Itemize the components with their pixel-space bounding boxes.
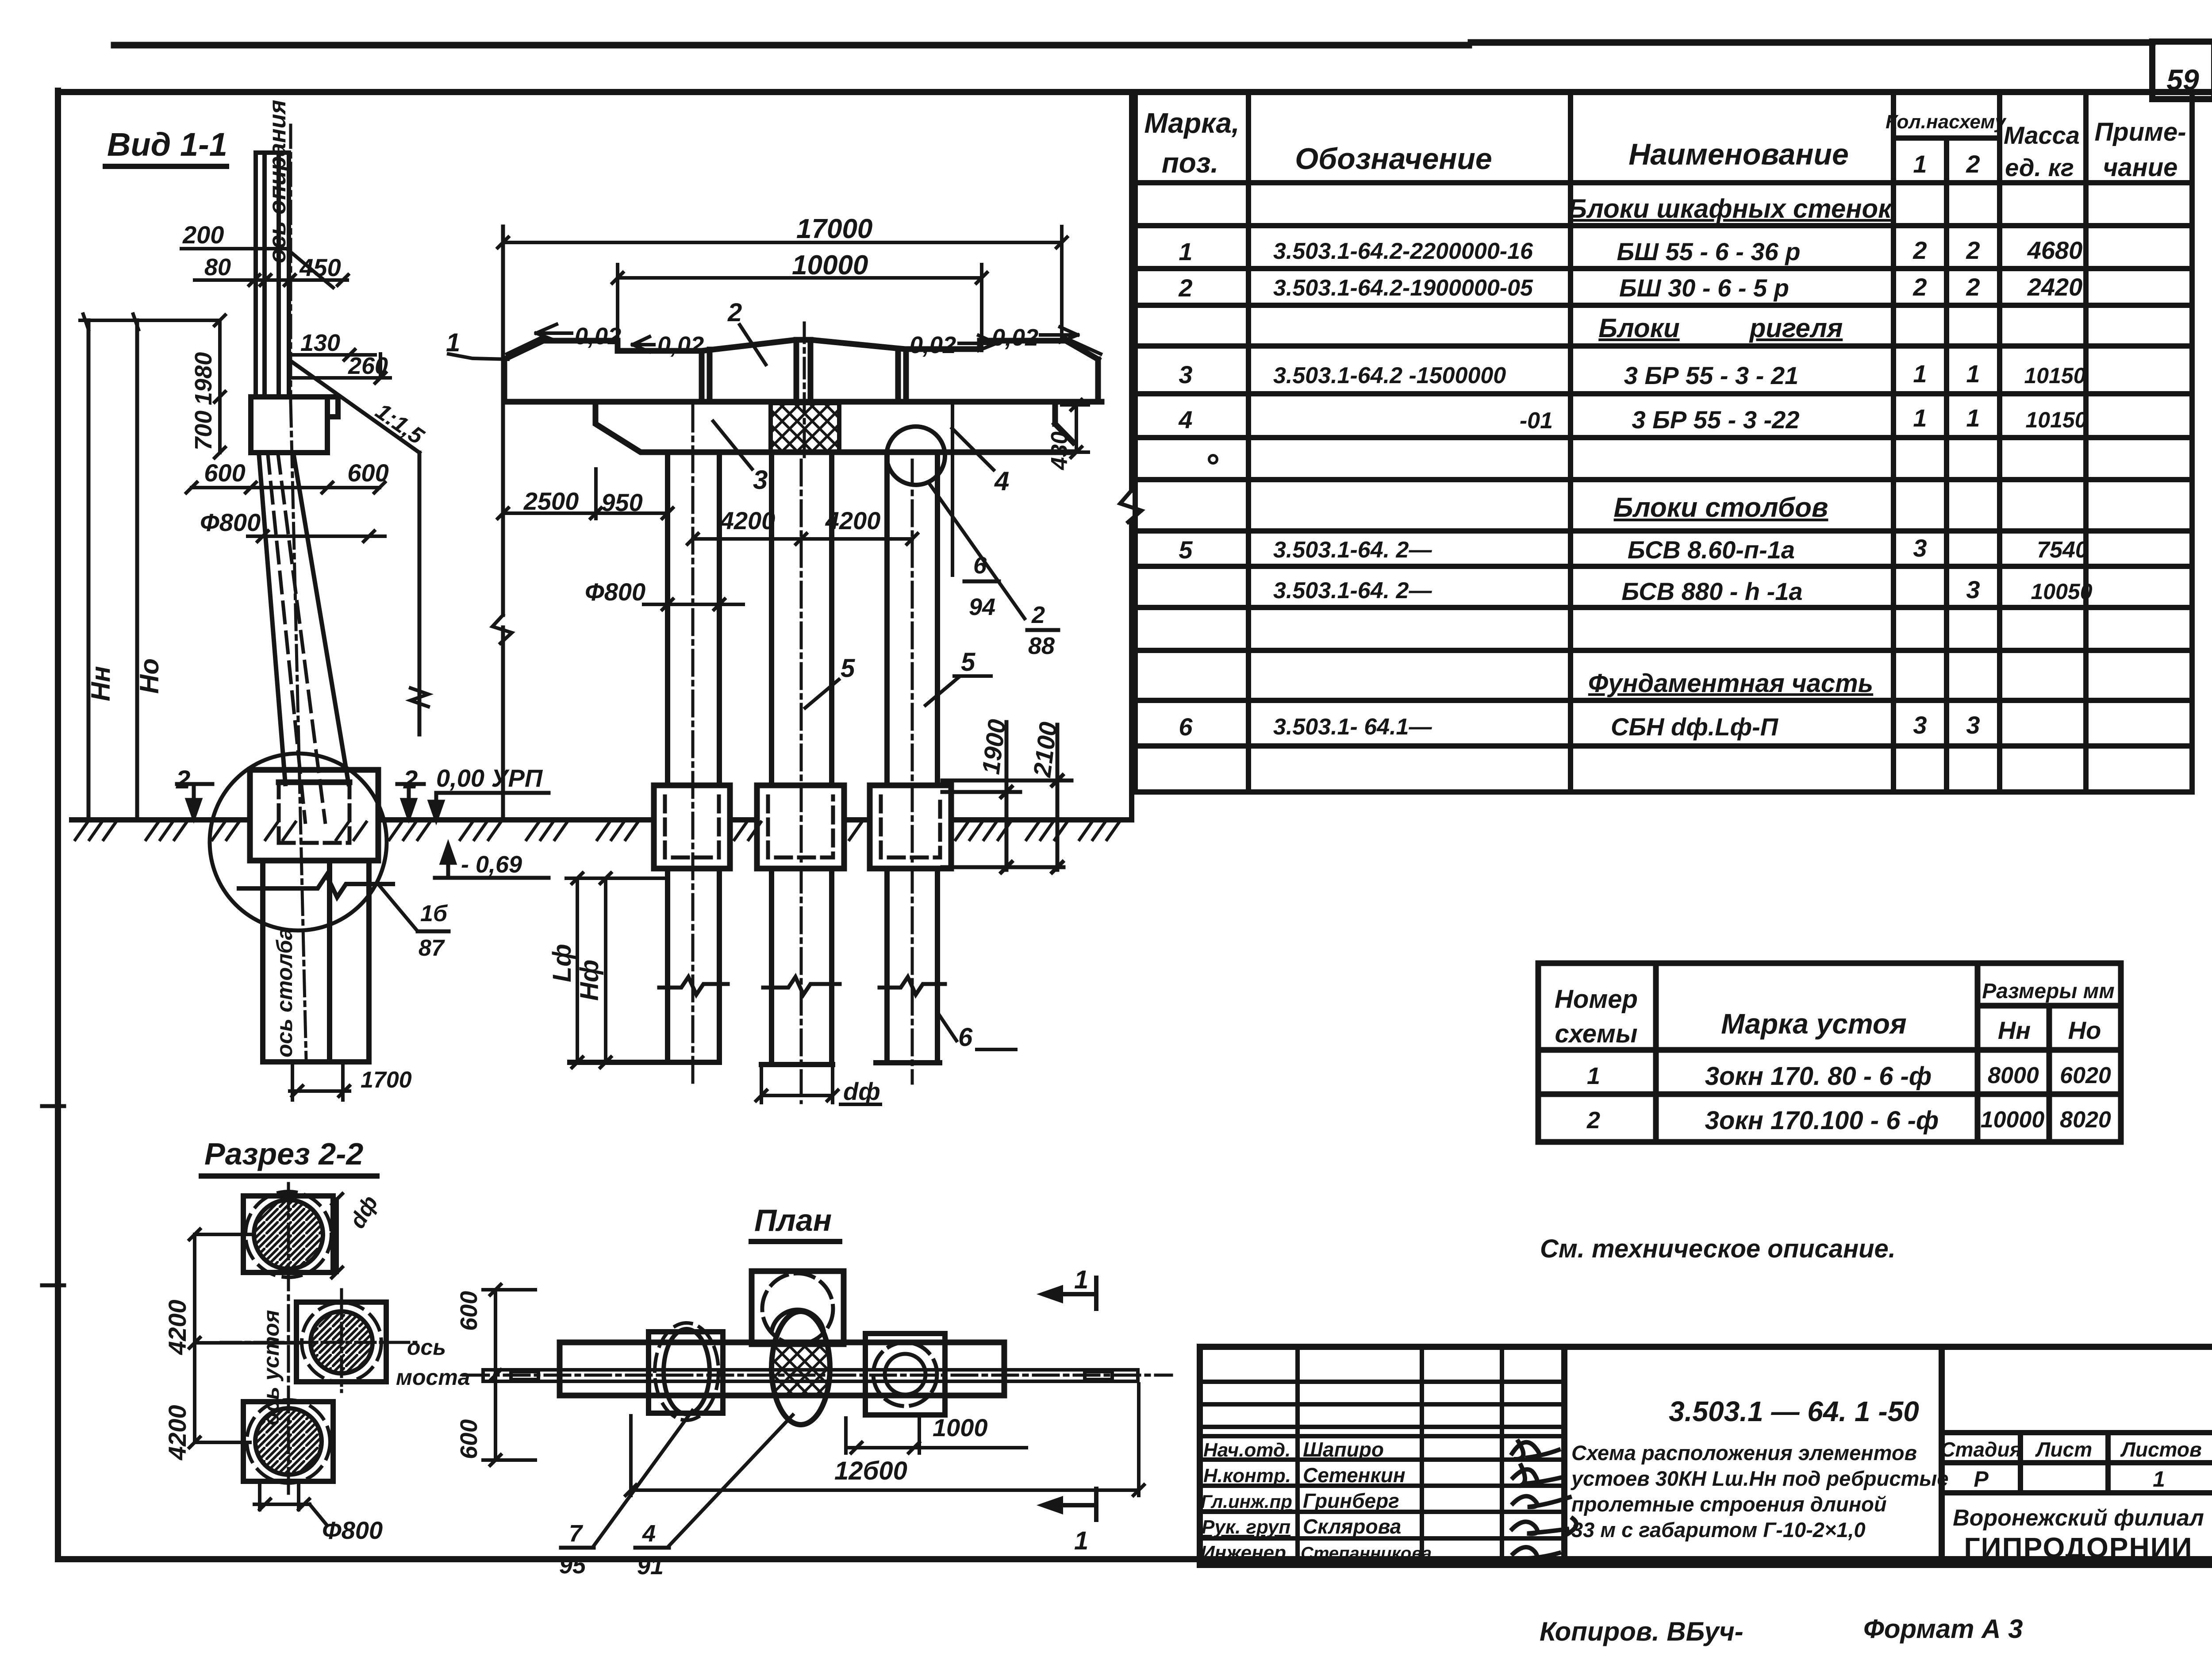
slope labels 0.02 — [575, 323, 1038, 358]
svg-text:3: 3 — [1913, 534, 1927, 562]
svg-text:3.503.1 — 64. 1 -50: 3.503.1 — 64. 1 -50 — [1669, 1395, 1919, 1427]
signatures scribbles — [1512, 1441, 1576, 1559]
title block description — [1571, 1441, 1949, 1541]
svg-text:2: 2 — [1912, 273, 1927, 301]
svg-text:91: 91 — [637, 1553, 664, 1580]
svg-text:1: 1 — [2153, 1467, 2165, 1491]
svg-text:0,02: 0,02 — [575, 323, 621, 350]
svg-text:Нф: Нф — [575, 960, 604, 1001]
row 6 — [1179, 711, 1980, 741]
specification table header texts — [1144, 107, 2186, 182]
battered column lines below cap — [259, 453, 349, 784]
svg-text:2: 2 — [1586, 1107, 1600, 1134]
svg-text:3: 3 — [1913, 711, 1927, 739]
svg-text:Нн: Нн — [1998, 1016, 2031, 1044]
svg-text:1: 1 — [1913, 360, 1927, 388]
svg-text:Ф800: Ф800 — [322, 1516, 383, 1544]
abutment wall verticals — [256, 153, 289, 397]
svg-text:8000: 8000 — [1988, 1063, 2039, 1088]
svg-text:БШ 30 - 6 - 5 р: БШ 30 - 6 - 5 р — [1619, 274, 1789, 302]
svg-text:СБН dф.Lф-П: СБН dф.Lф-П — [1611, 713, 1779, 741]
svg-text:6020: 6020 — [2060, 1063, 2111, 1088]
footing blocks — [654, 785, 951, 869]
svg-text:БСВ 880 - h -1а: БСВ 880 - h -1а — [1621, 577, 1802, 605]
svg-text:17000: 17000 — [796, 214, 872, 244]
svg-text:Схема расположения элементов: Схема расположения элементов — [1571, 1441, 1917, 1464]
detail circle on cap — [887, 427, 945, 485]
svg-text:Нач.отд.: Нач.отд. — [1203, 1439, 1290, 1461]
svg-text:БШ 55 - 6 - 36 р: БШ 55 - 6 - 36 р — [1617, 238, 1800, 265]
svg-text:Приме-: Приме- — [2094, 118, 2186, 146]
svg-text:1980: 1980 — [190, 352, 217, 405]
svg-text:1: 1 — [1587, 1063, 1600, 1089]
row 1 — [1179, 236, 2082, 265]
svg-text:2: 2 — [1966, 150, 1980, 178]
svg-text:4: 4 — [994, 466, 1009, 496]
plan bridge axis — [464, 1374, 1171, 1377]
svg-text:3 БР 55 - 3 -22: 3 БР 55 - 3 -22 — [1632, 406, 1800, 434]
svg-text:94: 94 — [969, 594, 995, 620]
footing plan block 3 — [243, 1400, 333, 1483]
row 3 — [1179, 360, 2085, 389]
drawing frame left — [55, 91, 61, 1559]
svg-text:3: 3 — [1966, 576, 1980, 603]
svg-text:схемы: схемы — [1555, 1019, 1638, 1048]
svg-text:0,02: 0,02 — [910, 332, 956, 358]
svg-text:3: 3 — [1179, 361, 1192, 388]
svg-text:600: 600 — [456, 1419, 482, 1459]
svg-text:моста: моста — [396, 1365, 470, 1390]
row 2 — [1178, 273, 2082, 302]
svg-text:2: 2 — [1912, 236, 1927, 264]
pier cap beam — [595, 405, 1073, 452]
svg-text:10000: 10000 — [1981, 1107, 2045, 1133]
svg-text:2: 2 — [1178, 274, 1192, 302]
svg-text:1000: 1000 — [933, 1414, 988, 1441]
svg-text:3: 3 — [753, 465, 768, 495]
svg-text:Марка устоя: Марка устоя — [1721, 1008, 1906, 1040]
center axis of joint — [803, 323, 806, 457]
detail ref 6/94 — [951, 402, 954, 575]
svg-text:Наименование: Наименование — [1628, 138, 1849, 171]
pier cap block — [251, 397, 338, 453]
svg-text:Гл.инж.пр: Гл.инж.пр — [1201, 1491, 1292, 1512]
svg-text:Н.контр.: Н.контр. — [1203, 1465, 1291, 1487]
svg-text:чание: чание — [2103, 153, 2178, 182]
svg-text:3.503.1-64.2 -1500000: 3.503.1-64.2 -1500000 — [1273, 363, 1506, 388]
plan center block — [752, 1271, 844, 1344]
deck left corner double line — [507, 336, 545, 357]
svg-text:2420: 2420 — [2027, 273, 2083, 301]
svg-text:4200: 4200 — [163, 1405, 191, 1461]
svg-text:3окн 170. 80 - 6 -ф: 3окн 170. 80 - 6 -ф — [1705, 1062, 1932, 1091]
svg-text:2: 2 — [1966, 273, 1980, 301]
fold tick marks — [42, 1106, 64, 1285]
svg-text:1700: 1700 — [361, 1067, 412, 1093]
footing plan block 1 — [243, 1192, 333, 1277]
shaft break mark — [239, 875, 393, 897]
svg-text:Блоки шкафных стенок: Блоки шкафных стенок — [1568, 194, 1893, 223]
svg-text:ось опирания: ось опирания — [264, 100, 291, 263]
svg-text:0,02: 0,02 — [657, 332, 704, 358]
svg-text:130: 130 — [300, 330, 340, 356]
svg-text:1: 1 — [1913, 404, 1927, 432]
plan thin plate — [483, 1370, 1138, 1381]
drawing frame bottom — [58, 1556, 2212, 1562]
svg-text:поз.: поз. — [1162, 147, 1219, 179]
drawing frame top — [58, 89, 2212, 95]
svg-text:Сетенкин: Сетенкин — [1303, 1464, 1406, 1487]
columns (shafts) — [570, 452, 940, 1065]
svg-text:Шапиро: Шапиро — [1303, 1438, 1384, 1461]
row 4 — [1178, 404, 2087, 434]
svg-text:600: 600 — [204, 459, 245, 487]
svg-text:10050: 10050 — [2031, 579, 2092, 604]
svg-text:4200: 4200 — [825, 507, 881, 534]
svg-text:Лист: Лист — [2035, 1438, 2092, 1461]
svg-text:3.503.1-64.2-1900000-05: 3.503.1-64.2-1900000-05 — [1273, 275, 1533, 301]
svg-text:80: 80 — [204, 254, 231, 281]
abutment mark table texts — [1555, 980, 2115, 1135]
svg-text:1: 1 — [1913, 150, 1927, 178]
svg-text:Lф: Lф — [548, 944, 576, 982]
row 5b — [1273, 576, 2093, 605]
plan left block — [649, 1332, 723, 1413]
svg-text:600: 600 — [456, 1291, 482, 1331]
svg-text:12б00: 12б00 — [834, 1457, 907, 1485]
frame break right of elevation — [1129, 93, 1134, 820]
svg-text:8020: 8020 — [2060, 1107, 2111, 1133]
svg-text:7: 7 — [569, 1520, 584, 1547]
svg-text:3.503.1-64.2-2200000-16: 3.503.1-64.2-2200000-16 — [1273, 238, 1533, 264]
svg-text:Копиров. ВБуч-: Копиров. ВБуч- — [1540, 1617, 1743, 1646]
svg-text:Р: Р — [1974, 1467, 1989, 1491]
svg-text:3окн 170.100 - 6 -ф: 3окн 170.100 - 6 -ф — [1705, 1106, 1939, 1135]
svg-text:95: 95 — [559, 1552, 586, 1579]
detail ref 2/88 — [929, 483, 1025, 619]
svg-text:4200: 4200 — [163, 1299, 191, 1355]
svg-text:Формат А 3: Формат А 3 — [1863, 1614, 2023, 1644]
svg-text:Стадия: Стадия — [1940, 1438, 2021, 1461]
svg-text:Нн: Нн — [86, 666, 115, 701]
svg-text:5: 5 — [841, 654, 855, 683]
left extension line with break — [501, 227, 505, 820]
svg-text:1б: 1б — [420, 901, 448, 926]
svg-text:10150: 10150 — [2024, 363, 2085, 388]
svg-text:Гринберг: Гринберг — [1303, 1489, 1399, 1512]
svg-text:1: 1 — [1074, 1265, 1088, 1294]
svg-text:2: 2 — [1966, 236, 1980, 264]
svg-text:1: 1 — [1966, 360, 1980, 388]
svg-text:4: 4 — [642, 1520, 656, 1547]
svg-text:0,02: 0,02 — [992, 324, 1038, 351]
svg-text:-01: -01 — [1520, 408, 1553, 434]
svg-text:87: 87 — [419, 935, 445, 961]
svg-text:10000: 10000 — [792, 250, 868, 281]
svg-text:2: 2 — [1031, 602, 1045, 628]
svg-text:устоев 30КН Lш.Нн под ребристы: устоев 30КН Lш.Нн под ребристые — [1571, 1467, 1949, 1490]
svg-text:3.503.1- 64.1—: 3.503.1- 64.1— — [1273, 714, 1432, 740]
svg-text:Ф800: Ф800 — [200, 508, 261, 536]
detail ref 1b/87 — [377, 883, 416, 929]
svg-text:5: 5 — [1179, 536, 1193, 564]
Hn Ho level lines — [88, 320, 137, 820]
svg-text:Масса: Масса — [2004, 121, 2080, 149]
svg-text:2: 2 — [176, 765, 190, 794]
svg-text:БСВ 8.60-п-1а: БСВ 8.60-п-1а — [1628, 536, 1795, 564]
svg-text:88: 88 — [1028, 633, 1055, 659]
svg-text:Но: Но — [2068, 1016, 2101, 1044]
svg-text:Блоки: Блоки — [1598, 313, 1679, 343]
title block left grid — [1200, 1347, 1564, 1565]
bearing axis dash-dot — [289, 125, 292, 401]
svg-text:- 0,69: - 0,69 — [461, 851, 522, 878]
deck outline — [504, 340, 1102, 402]
svg-text:Разрез 2-2: Разрез 2-2 — [204, 1137, 363, 1171]
svg-text:ГИПРОДОРНИИ: ГИПРОДОРНИИ — [1964, 1532, 2193, 1564]
svg-text:6: 6 — [973, 552, 987, 579]
plan center bearing oval — [772, 1311, 830, 1425]
svg-text:3: 3 — [1966, 711, 1980, 739]
ground line — [72, 817, 1128, 823]
ground hatching — [75, 822, 1119, 840]
svg-text:4200: 4200 — [720, 507, 776, 534]
svg-text:пролетные строения длиной: пролетные строения длиной — [1571, 1492, 1887, 1516]
svg-text:2500: 2500 — [523, 487, 579, 515]
svg-text:ед. кг: ед. кг — [2005, 154, 2074, 181]
footing plan block 2 — [296, 1302, 386, 1382]
title block right grid — [1942, 1433, 2212, 1493]
detail circle — [210, 753, 387, 930]
svg-text:dф: dф — [843, 1077, 880, 1105]
svg-text:Обозначение: Обозначение — [1295, 142, 1492, 176]
svg-text:План: План — [754, 1203, 832, 1238]
plan right block — [865, 1334, 945, 1415]
slope 1:1.5 line — [292, 362, 419, 734]
svg-text:ось столба: ось столба — [272, 928, 297, 1057]
sheet top edge — [114, 42, 2152, 45]
svg-text:См. техническое описание.: См. техническое описание. — [1540, 1234, 1896, 1263]
foundation joint block at ground — [250, 770, 378, 861]
svg-text:Размеры мм: Размеры мм — [1982, 980, 2114, 1003]
svg-text:Рук. груп: Рук. груп — [1202, 1516, 1290, 1538]
svg-text:10150: 10150 — [2025, 407, 2087, 432]
svg-text:1: 1 — [1966, 404, 1980, 432]
svg-text:1: 1 — [1074, 1526, 1088, 1555]
svg-text:Вид 1-1: Вид 1-1 — [107, 126, 227, 163]
title block signature names — [1201, 1438, 1432, 1564]
svg-text:3.503.1-64. 2—: 3.503.1-64. 2— — [1273, 537, 1432, 563]
svg-text:700: 700 — [190, 411, 217, 450]
svg-text:ось: ось — [407, 1335, 446, 1360]
svg-text:ригеля: ригеля — [1749, 313, 1843, 343]
row 5 — [1179, 534, 2088, 564]
svg-text:Марка,: Марка, — [1144, 107, 1239, 139]
svg-text:Инженер: Инженер — [1201, 1542, 1286, 1564]
column axes — [693, 406, 912, 1103]
joint crosshatch block — [771, 403, 839, 453]
svg-text:6: 6 — [1179, 713, 1193, 741]
svg-text:450: 450 — [299, 254, 341, 281]
svg-text:Блоки столбов: Блоки столбов — [1614, 492, 1828, 523]
svg-text:Воронежский филиал: Воронежский филиал — [1953, 1505, 2204, 1531]
svg-text:1: 1 — [1179, 238, 1192, 265]
svg-text:7540: 7540 — [2037, 537, 2088, 563]
stage sheet cells — [1940, 1438, 2201, 1491]
svg-text:Номер: Номер — [1555, 985, 1638, 1014]
svg-text:4: 4 — [1178, 406, 1192, 434]
abutment axis dash-dot — [287, 1184, 290, 1493]
svg-text:Фундаментная часть: Фундаментная часть — [1588, 669, 1873, 698]
svg-text:0,00 УРП: 0,00 УРП — [436, 764, 543, 792]
svg-text:6: 6 — [958, 1023, 973, 1052]
svg-text:200: 200 — [182, 221, 224, 249]
svg-text:3 БР 55 - 3 - 21: 3 БР 55 - 3 - 21 — [1624, 361, 1799, 389]
plan beam band — [560, 1342, 1004, 1395]
svg-text:ось устоя: ось устоя — [259, 1310, 284, 1426]
column break marks — [659, 977, 945, 995]
abutment mark table grid — [1538, 963, 2121, 1142]
svg-text:Степанникова: Степанникова — [1301, 1544, 1432, 1563]
specification table grid — [1135, 93, 2192, 792]
svg-text:Ф800: Ф800 — [585, 578, 645, 606]
degree dot in empty row — [1209, 455, 1217, 463]
svg-text:33 м с габаритом Г-10-2×1,0: 33 м с габаритом Г-10-2×1,0 — [1571, 1518, 1866, 1541]
svg-text:Но: Но — [134, 658, 164, 694]
svg-text:4680: 4680 — [2027, 236, 2083, 264]
svg-text:3.503.1-64. 2—: 3.503.1-64. 2— — [1273, 578, 1432, 603]
svg-text:Листов: Листов — [2120, 1438, 2201, 1461]
svg-text:Кол.насхему: Кол.насхему — [1886, 111, 2007, 133]
svg-text:5: 5 — [961, 648, 975, 676]
page number box 59 — [2152, 42, 2212, 99]
title block frame — [1200, 1347, 2212, 1565]
foundation shaft — [263, 861, 369, 1062]
svg-text:Склярова: Склярова — [1303, 1515, 1401, 1538]
